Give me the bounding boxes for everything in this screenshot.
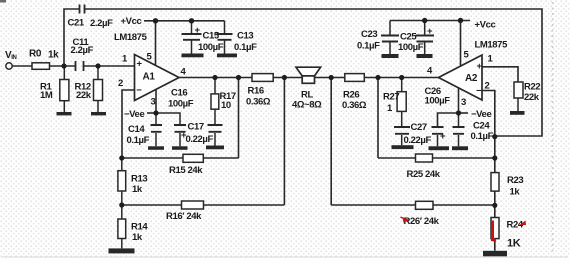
svg-text:C21: C21 (68, 18, 85, 29)
ground C25 (417, 54, 433, 58)
svg-text:R23: R23 (507, 175, 523, 186)
resistor R27 (397, 78, 406, 128)
svg-text:LM1875: LM1875 (114, 32, 148, 43)
svg-text:+: + (181, 130, 187, 141)
resistor R13 (118, 158, 126, 205)
junction node R13/R14/R16' (119, 202, 124, 207)
capacitor C25 (416, 21, 435, 55)
wire main output line (179, 77, 439, 79)
capacitor C24 (453, 113, 465, 146)
resistor R14 (118, 205, 126, 248)
wire feedback R16' run (122, 78, 285, 206)
wire -Vee right link (459, 112, 469, 114)
svg-text:100µF: 100µF (398, 42, 424, 53)
svg-text:0.1µF: 0.1µF (357, 41, 380, 52)
svg-text:0.1µF: 0.1µF (234, 42, 257, 53)
resistor R26 (345, 74, 365, 82)
resistor R16' (182, 201, 204, 209)
svg-text:+: + (427, 26, 433, 37)
svg-text:R16: R16 (248, 86, 264, 97)
wire input line (12, 65, 134, 67)
speaker RL (296, 67, 321, 83)
svg-text:C13: C13 (237, 31, 253, 42)
svg-text:C25: C25 (400, 32, 417, 43)
op-amp U1 A1 (135, 55, 180, 101)
svg-text:A2: A2 (465, 73, 478, 84)
svg-text:100µF: 100µF (168, 99, 194, 110)
svg-text:C14: C14 (128, 124, 145, 135)
capacitor C15 (182, 21, 202, 54)
svg-text:0.36Ω: 0.36Ω (246, 97, 271, 108)
wire C21 top loop (64, 9, 542, 136)
ground C14 (148, 146, 164, 150)
svg-text:R26: R26 (343, 90, 359, 101)
capacitor C11 (76, 61, 84, 71)
svg-text:C17: C17 (188, 122, 204, 133)
junction node R23/R24/R26' (492, 203, 497, 208)
resistor R24 (491, 218, 499, 242)
capacitor C21 (80, 5, 85, 14)
svg-text:22k: 22k (524, 92, 540, 103)
svg-text:22k: 22k (76, 90, 92, 101)
svg-text:R26′ 24k: R26′ 24k (404, 216, 440, 227)
wire pin2 A2 drop (482, 91, 495, 159)
wire +Vcc rail right (390, 20, 470, 22)
junction node -Vee A2 (456, 110, 461, 115)
svg-text:+: + (477, 61, 483, 72)
svg-text:+: + (440, 131, 446, 142)
wire R23 R24 chain (494, 158, 496, 251)
resistor R26' (416, 201, 434, 209)
svg-text:3: 3 (461, 97, 466, 108)
svg-text:LM1875: LM1875 (475, 40, 509, 51)
resistor R22 (514, 82, 523, 111)
svg-text:2.2µF: 2.2µF (71, 45, 94, 56)
svg-text:0.22µF: 0.22µF (404, 135, 432, 146)
svg-text:+: + (195, 25, 201, 36)
junction node +Vcc C15 (189, 18, 194, 23)
svg-text:C24: C24 (473, 121, 490, 132)
wire pin5 A1 (155, 21, 157, 65)
svg-text:0.22µF: 0.22µF (186, 134, 214, 145)
svg-text:2.2µF: 2.2µF (90, 18, 113, 29)
scan artifact bottom line (2, 256, 568, 258)
svg-text:C27: C27 (411, 122, 427, 133)
svg-text:C16: C16 (171, 88, 187, 99)
junction node +Vcc pin5 A1 (153, 18, 158, 23)
ground R22 (510, 111, 525, 115)
wire feedback R26' run (331, 78, 495, 206)
junction node C21 / pin2 A2 line (492, 134, 497, 139)
svg-text:100µF: 100µF (198, 42, 224, 53)
svg-text:R22: R22 (524, 82, 540, 93)
wire pin3 A1 (155, 89, 157, 113)
ground C15 (182, 54, 204, 58)
junction node output A2 / R25 riser (375, 75, 380, 80)
svg-text:+Vcc: +Vcc (475, 20, 496, 31)
ground C26 (429, 146, 450, 150)
svg-text:A1: A1 (143, 72, 156, 83)
scan artifact top-left (0, 0, 6, 3)
svg-text:−: − (476, 85, 482, 96)
svg-text:100µF: 100µF (425, 96, 451, 107)
junction node output A1 / R15 riser (236, 75, 241, 80)
ground R24 (483, 251, 507, 256)
capacitor C26 (432, 127, 444, 146)
svg-text:−: − (136, 85, 142, 96)
wire pin5 A2 (460, 21, 462, 67)
junction node R25 / R23 (492, 155, 497, 160)
svg-text:0.1µF: 0.1µF (471, 131, 494, 142)
resistor R17 (211, 78, 219, 126)
capacitor C27 (394, 127, 410, 145)
ground R14 (109, 248, 135, 253)
op-amp U2 A2 (439, 55, 483, 100)
ground C16 (172, 146, 188, 150)
wire pin3 A2 (458, 88, 460, 113)
junction node +Vcc C25 (422, 18, 427, 23)
svg-text:R25 24k: R25 24k (407, 169, 441, 180)
svg-text:1k: 1k (48, 50, 59, 61)
junction node output A2 / R27 (399, 75, 404, 80)
junction node speaker left / R16' riser (282, 75, 287, 80)
ground R12 (91, 112, 106, 115)
resistor R16 (252, 74, 273, 82)
junction node input B (C11/R12/pin1 A1) (95, 63, 100, 68)
capacitor C23 (381, 21, 399, 55)
wire C26 link (438, 113, 459, 127)
scan artifact right column (552, 2, 554, 254)
svg-text:1M: 1M (40, 90, 53, 101)
svg-text:1K: 1K (507, 238, 521, 250)
svg-text:0.36Ω: 0.36Ω (342, 100, 367, 111)
junction node input A (R0/R1/C11/C21) (61, 63, 66, 68)
svg-text:−Vee: −Vee (471, 109, 491, 120)
svg-text:1k: 1k (510, 187, 521, 198)
svg-text:R13: R13 (131, 174, 147, 185)
ground C27 (392, 145, 414, 149)
svg-text:10: 10 (221, 100, 231, 111)
capacitor C13 (217, 21, 233, 54)
svg-text:R15 24k: R15 24k (169, 165, 203, 176)
svg-text:0.1µF: 0.1µF (127, 135, 150, 146)
junction node +Vcc pin5 A2 (458, 18, 463, 23)
resistor R15 (183, 154, 203, 162)
wire +Vcc rail left (144, 20, 225, 22)
wire pin1 A2 to R22 (482, 67, 518, 82)
svg-text:R27: R27 (383, 92, 399, 103)
resistor R0 (32, 63, 50, 70)
junction node speaker right / R26' riser (329, 75, 334, 80)
svg-text:2: 2 (118, 78, 123, 89)
wire feedback R15 run (122, 78, 239, 159)
resistor R23 (491, 173, 499, 192)
svg-text:2: 2 (485, 81, 490, 92)
resistor R1 (60, 66, 69, 112)
ground C23 (382, 54, 399, 58)
svg-text:−Vee: −Vee (124, 109, 144, 120)
svg-text:+: + (137, 59, 143, 70)
wire -Vee left link (147, 112, 156, 114)
resistor R25 (416, 154, 433, 162)
junction node -Vee A1 (153, 110, 158, 115)
wire feedback R25 run (378, 78, 495, 159)
capacitor C16 (156, 113, 186, 146)
capacitor C14 (151, 113, 163, 146)
resistor R12 (94, 66, 103, 112)
svg-text:C23: C23 (361, 29, 377, 40)
svg-text:R16′ 24k: R16′ 24k (166, 211, 202, 222)
capacitor C17 (208, 125, 223, 146)
ground C17 (206, 146, 224, 150)
svg-text:C15: C15 (203, 31, 220, 42)
svg-text:3: 3 (151, 97, 156, 108)
ground C24 (452, 146, 468, 150)
svg-text:4Ω~8Ω: 4Ω~8Ω (292, 100, 322, 111)
ground C13 (217, 54, 237, 58)
svg-text:R0: R0 (29, 49, 42, 60)
junction node pin2 A1 / R15 / R13 (119, 155, 124, 160)
terminal Vin (6, 63, 12, 69)
junction node output A1 / R17 (212, 75, 217, 80)
svg-text:1k: 1k (132, 184, 143, 195)
svg-text:+Vcc: +Vcc (121, 16, 142, 27)
wire pin2 A1 feedback drop (122, 90, 135, 158)
svg-text:1k: 1k (132, 232, 143, 243)
ground R1 (57, 112, 72, 115)
svg-text:R14: R14 (131, 222, 148, 233)
